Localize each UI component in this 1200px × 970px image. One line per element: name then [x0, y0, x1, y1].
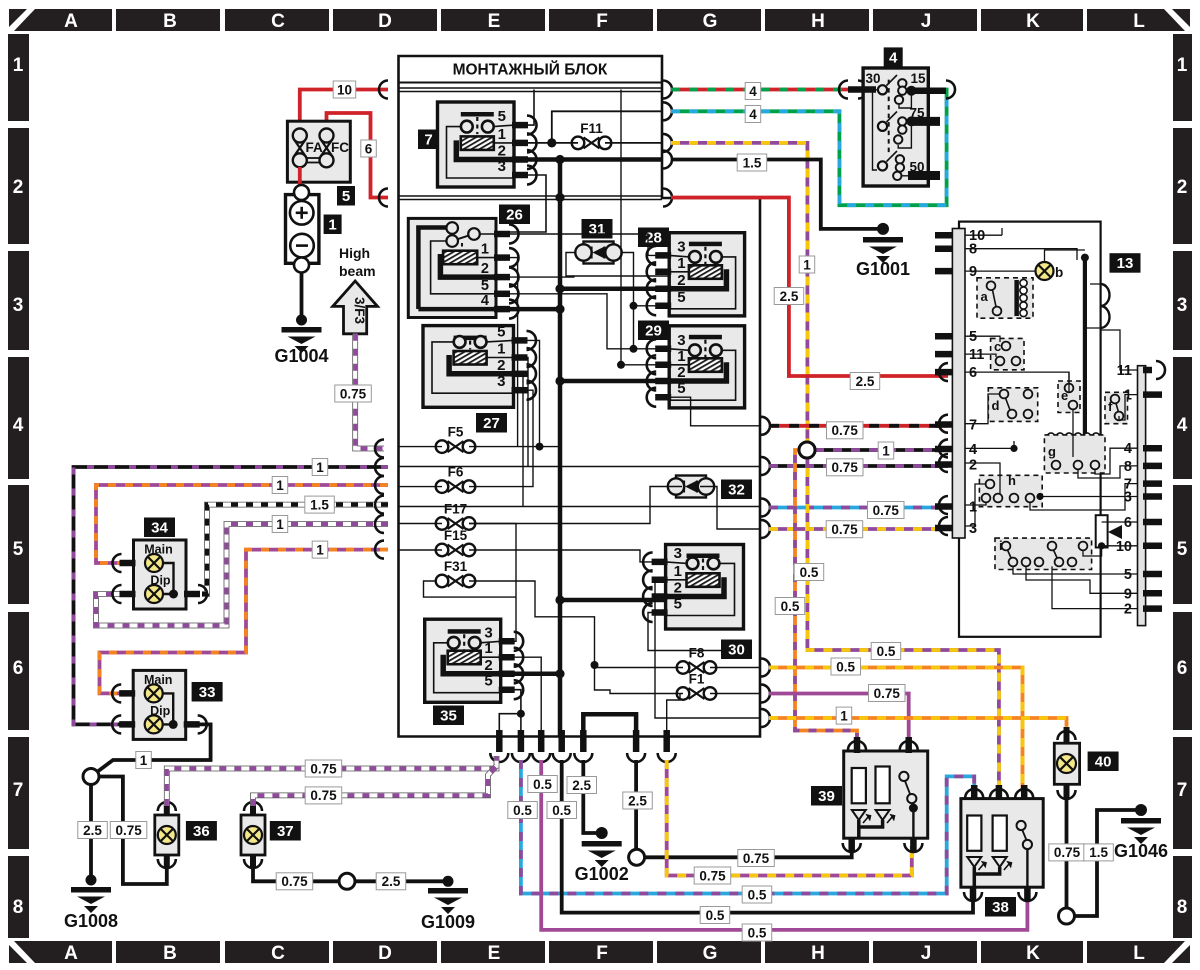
svg-text:4: 4 [481, 293, 489, 309]
wire relay27 pin2 [514, 374, 524, 507]
label 0.5 orange [775, 598, 805, 615]
svg-text:1: 1 [276, 517, 284, 532]
svg-text:FA: FA [306, 140, 324, 155]
svg-text:0.5: 0.5 [877, 644, 896, 659]
svg-text:5: 5 [1124, 567, 1132, 583]
thick vertical power bus x560 [558, 160, 563, 737]
panel 13 switch e [1058, 381, 1080, 413]
lamp 40 [1054, 743, 1079, 784]
wire relay26 pin5 right loop [496, 294, 634, 349]
connector F5 row [375, 440, 384, 458]
wire 2.5 red to panel 13 row6 [671, 198, 948, 377]
relay U30 label 30 [721, 640, 752, 660]
svg-text:A: A [64, 943, 78, 964]
junction G1002 [596, 827, 608, 839]
39 internal wires [859, 820, 883, 827]
svg-text:K: K [1026, 943, 1040, 964]
label 1 wire33dip [312, 541, 328, 558]
connector ignition 30 [839, 81, 848, 99]
39 led arrows [852, 810, 866, 820]
svg-text:K: K [1026, 11, 1040, 32]
label 0.75 row7 [827, 422, 864, 439]
svg-text:F: F [596, 11, 608, 32]
connector ignition 15 right [946, 81, 955, 99]
svg-text:1: 1 [882, 443, 890, 458]
svg-text:2: 2 [677, 272, 685, 289]
svg-text:0.75: 0.75 [699, 868, 726, 883]
svg-text:L: L [1133, 943, 1145, 964]
label 0.5 F8 [831, 658, 861, 675]
lamp 37 label 37 [270, 821, 301, 841]
wire relay26 top pin to right [496, 234, 669, 255]
battery label 1 [324, 215, 342, 235]
wire 1 black to 33 Main [74, 467, 389, 724]
svg-text:2: 2 [677, 364, 685, 381]
38 switch [1017, 821, 1026, 830]
label 0.75 F1 [869, 685, 906, 702]
svg-text:1: 1 [969, 500, 977, 516]
svg-text:F31: F31 [444, 559, 468, 574]
ground G1002 [582, 841, 622, 867]
svg-text:8: 8 [1177, 897, 1188, 918]
wire F31 right [469, 581, 683, 668]
connector into block wire 6 [379, 189, 388, 207]
39 label [811, 786, 842, 806]
fuse F17 [436, 517, 476, 530]
svg-text:36: 36 [193, 823, 210, 840]
wire orange-purple from junction down [795, 450, 857, 744]
label 0.75 row1 [868, 502, 905, 519]
svg-text:2.5: 2.5 [83, 823, 102, 838]
connector purple row143 [663, 134, 672, 152]
svg-text:2: 2 [484, 657, 492, 674]
wire bus to relay28 pin2 thick [560, 287, 669, 292]
lamp 40 label [1088, 752, 1119, 772]
svg-text:2: 2 [1177, 177, 1188, 198]
svg-text:5: 5 [13, 539, 24, 560]
svg-text:E: E [488, 11, 501, 32]
rear lamp cluster 38 [961, 799, 1043, 888]
svg-text:4: 4 [969, 442, 977, 458]
fusible link FC [320, 129, 334, 143]
headlamp 33 label 33 [192, 682, 223, 702]
svg-text:0.75: 0.75 [832, 423, 859, 438]
high beam arrow 3/F3 [333, 281, 378, 334]
wire 1 black-purple to panel row4 [815, 448, 948, 452]
39 lamp resistors [852, 768, 866, 803]
label 0.5 purple B [742, 924, 772, 941]
connector row 524 [375, 515, 384, 533]
svg-text:5: 5 [969, 329, 977, 345]
svg-text:1: 1 [140, 753, 148, 768]
svg-text:10: 10 [337, 82, 352, 97]
svg-text:b: b [1055, 265, 1063, 280]
connector into block wire 10 [379, 81, 388, 99]
svg-text:2: 2 [1124, 602, 1132, 618]
svg-text:G1008: G1008 [64, 911, 118, 931]
wire vertical x621 relay29 pin1 [621, 90, 669, 365]
wire relay35 pin2 to bus thick [501, 672, 560, 677]
svg-text:F: F [596, 943, 608, 964]
svg-text:J: J [921, 11, 932, 32]
wire F5 right [469, 446, 540, 448]
wire 1 white-purple to 34 Dip [96, 524, 388, 626]
relay U27 [423, 326, 514, 408]
svg-text:1: 1 [677, 348, 685, 365]
relay U35 [425, 619, 501, 702]
junction G1001 [877, 223, 889, 235]
svg-text:0.75: 0.75 [743, 851, 770, 866]
relay U28 [669, 233, 744, 316]
label 0.75 39ground [738, 850, 775, 867]
fusible link FA [293, 129, 307, 143]
mounting block МОНТАЖНЫЙ БЛОК outline [399, 56, 761, 737]
svg-text:1: 1 [497, 341, 505, 358]
svg-text:5: 5 [342, 188, 350, 205]
label 6 [361, 140, 377, 157]
svg-text:6: 6 [13, 658, 24, 679]
wire relay27 pin1 [514, 358, 529, 467]
relay U29 label 29 [638, 321, 669, 341]
wire 1.5 white-black to 34 right pin [202, 505, 388, 594]
svg-text:5: 5 [498, 108, 506, 125]
wire battery minus to ground [300, 272, 304, 322]
svg-text:beam: beam [339, 263, 376, 279]
thick U link bottom connectors [583, 714, 636, 736]
svg-text:L: L [1133, 11, 1145, 32]
fuse F11 [572, 137, 612, 150]
wire 2.5 to G1008 [89, 785, 93, 881]
label 0.75 40 [1049, 844, 1086, 861]
svg-text:2: 2 [13, 177, 24, 198]
wire 31 left leg [566, 253, 576, 277]
svg-text:30: 30 [866, 71, 881, 86]
label 0.75 row2 [827, 459, 864, 476]
wire 0.75 white-purple to 37 top [253, 766, 497, 806]
svg-text:G1009: G1009 [421, 912, 475, 932]
label 0.75 G1009 [276, 873, 313, 890]
wire 2.5 black to junction circle 39 [634, 760, 638, 849]
svg-text:h: h [1008, 473, 1016, 488]
panel 13 switch d [988, 388, 1037, 422]
svg-text:33: 33 [199, 684, 216, 701]
wire 31 right leg to relay28 pin5 [622, 253, 670, 306]
panel 13 circles row [1047, 433, 1054, 440]
switch panel 13 outline [959, 222, 1101, 637]
svg-text:D: D [378, 943, 392, 964]
lamp 36 [155, 815, 179, 855]
svg-text:C: C [271, 11, 285, 32]
ground G1004 [282, 327, 322, 353]
svg-text:5: 5 [674, 596, 682, 613]
svg-text:5: 5 [677, 380, 685, 397]
wire green feed from F11 junction [552, 111, 662, 143]
wire relay7 pin3 down [496, 175, 546, 232]
connector red row197 [663, 189, 672, 207]
svg-text:2.5: 2.5 [856, 374, 875, 389]
wire 0.75 to 39 bottom left [645, 846, 852, 857]
label 1.5 top [737, 154, 767, 171]
wire 0.75 lamp40 down [1065, 795, 1069, 908]
ignition pin 30 stub [848, 86, 876, 93]
wire relay7 pin5 to bus [514, 90, 534, 126]
svg-text:2: 2 [498, 143, 506, 160]
svg-text:3: 3 [674, 545, 682, 562]
headlamp 34 label 34 [144, 518, 175, 538]
panel 13 lamp b [1036, 262, 1054, 280]
wire relay7 pin1 to F11 [514, 142, 578, 144]
svg-text:26: 26 [506, 206, 523, 223]
panel 13 switch c [991, 338, 1024, 369]
buzzer 32 label 32 [721, 480, 752, 500]
svg-text:5: 5 [484, 673, 492, 690]
wire 0.75 to lamp36 bottom [98, 777, 167, 885]
svg-text:9: 9 [1124, 586, 1132, 602]
ground G1046 [1121, 818, 1161, 844]
panel 13 coil connector right [1101, 284, 1110, 328]
wire relay7 pin2 thick to edge [514, 157, 662, 162]
wire 0.5 orange-yellow F8 to 38 [769, 668, 1023, 792]
svg-text:H: H [811, 943, 825, 964]
svg-text:3: 3 [498, 158, 506, 175]
wire bus to relay29 pin2 thick [560, 379, 669, 384]
svg-text:4: 4 [13, 415, 24, 436]
headlamp 33 [133, 670, 186, 739]
panel 13 wires to right strip [1101, 330, 1138, 370]
svg-text:0.75: 0.75 [1054, 845, 1081, 860]
panel 13 resistor [1096, 515, 1108, 547]
svg-text:8: 8 [13, 897, 24, 918]
wire 1.5 black to G1001 [671, 160, 879, 229]
wire row 506 across block [399, 506, 761, 508]
label 0.75 row3 [826, 521, 863, 538]
junction thick bus top [555, 155, 564, 164]
label 0.5 purpleyellow horiz [871, 643, 901, 660]
buzzer 31 label 31 [582, 219, 613, 239]
svg-text:38: 38 [992, 899, 1009, 916]
39 switch [899, 772, 908, 781]
ignition pin 50 stub [908, 171, 940, 180]
junction G1046 [1135, 804, 1147, 816]
ignition internal contacts [878, 85, 887, 94]
svg-text:0.5: 0.5 [748, 887, 767, 902]
label 0.75 high beam [335, 385, 372, 402]
wire red FA to battery plus [298, 167, 302, 188]
svg-text:4: 4 [889, 49, 898, 66]
svg-text:6: 6 [1124, 515, 1132, 531]
svg-text:0.75: 0.75 [873, 503, 900, 518]
panel 13 left pins [935, 232, 953, 239]
svg-text:2: 2 [674, 580, 682, 597]
svg-text:0.5: 0.5 [513, 803, 532, 818]
wire 1 purple-orange to 34 Main [96, 485, 388, 563]
panel 13 switch i [995, 538, 1092, 569]
label 1 wire34dip [272, 516, 288, 533]
fuse left stubs [399, 446, 443, 448]
svg-text:1: 1 [677, 255, 685, 272]
label 0.5 cyan B [742, 886, 772, 903]
svg-text:F11: F11 [580, 121, 603, 136]
relay U30 [666, 545, 744, 630]
wire bus to relay30 pin2 thick [560, 598, 666, 603]
svg-text:G1046: G1046 [1114, 841, 1168, 861]
38 lamp resistors [967, 816, 981, 851]
panel 13 switch g [1044, 435, 1105, 473]
svg-text:G: G [703, 943, 718, 964]
svg-text:40: 40 [1095, 754, 1112, 771]
wire relay29 pin5 to block edge row 425.8 [669, 397, 760, 426]
label 0.75 yellow39 [694, 867, 731, 884]
svg-text:2: 2 [497, 357, 505, 374]
fuse F1 [677, 687, 717, 700]
ignition label 4 [884, 47, 903, 67]
label 0.75 36 [110, 822, 147, 839]
wire F8 right to edge [710, 667, 760, 669]
connector row 504 [375, 496, 384, 514]
38 led arrows [967, 857, 981, 867]
label 10 [333, 81, 356, 98]
ignition pin 15 stub [911, 87, 946, 94]
label 0.75 row37 [305, 787, 342, 804]
connector F8 out [761, 659, 770, 677]
wire row 466 across block [399, 466, 761, 468]
svg-text:A: A [64, 11, 78, 32]
wire 0.75 purple-yellow to 39 bottom right [667, 760, 912, 876]
svg-text:G1002: G1002 [575, 864, 629, 884]
svg-text:11: 11 [1117, 363, 1132, 379]
wire 0.75 37 bottom to G1009 [253, 866, 340, 881]
svg-text:9: 9 [969, 264, 977, 280]
svg-text:B: B [163, 943, 177, 964]
svg-text:3: 3 [677, 332, 685, 349]
label 0.5 cyan A [508, 802, 538, 819]
label 1.5 wire34 [305, 496, 335, 513]
label 1 33out [136, 752, 152, 769]
svg-text:0.75: 0.75 [831, 522, 858, 537]
svg-text:1: 1 [498, 126, 506, 143]
label 1 vertical H [799, 256, 815, 273]
svg-text:1: 1 [674, 563, 682, 580]
svg-text:3: 3 [677, 238, 685, 255]
relay U28 label 28 [638, 228, 669, 248]
svg-text:6: 6 [1177, 658, 1188, 679]
svg-text:1.5: 1.5 [743, 155, 762, 170]
junction F11 left [547, 138, 556, 147]
svg-text:0.75: 0.75 [832, 460, 859, 475]
ground G1009 [428, 888, 468, 914]
wire 0.75 purple-yellow to panel row3 [769, 527, 948, 531]
svg-text:13: 13 [1117, 255, 1134, 272]
relay U7 [438, 102, 515, 187]
relay U26 [408, 218, 496, 317]
svg-text:C: C [271, 943, 285, 964]
relay U26 label 26 [499, 205, 530, 225]
svg-text:5: 5 [497, 323, 505, 340]
svg-text:6: 6 [969, 365, 977, 381]
headlamp 34 [134, 540, 187, 609]
panel 13 internal wires [965, 234, 1002, 236]
connector panel row1 [939, 496, 948, 514]
svg-text:МОНТАЖНЫЙ БЛОК: МОНТАЖНЫЙ БЛОК [453, 61, 608, 79]
svg-text:0.75: 0.75 [310, 788, 337, 803]
svg-text:2: 2 [969, 458, 977, 474]
connector 1.5 row159 [663, 151, 672, 169]
wire F11 right to block edge [605, 142, 662, 144]
svg-text:1.5: 1.5 [310, 497, 329, 512]
svg-text:31: 31 [589, 221, 606, 238]
wire 1 from 33 to junction [95, 724, 211, 773]
link bar between FA FC [307, 157, 320, 159]
ignition pin 75 stub [911, 117, 940, 126]
svg-text:2.5: 2.5 [382, 874, 401, 889]
wire internal y197.5 power line [399, 195, 663, 197]
wire 0.75 cyan-purple to panel row1 [769, 506, 948, 510]
wire 2.5 black to G1002 [583, 760, 601, 833]
svg-text:1: 1 [1177, 55, 1188, 76]
panel 13 left connector strip [952, 229, 965, 539]
svg-text:4: 4 [1124, 441, 1132, 457]
wire 10 red battery to block [300, 90, 388, 125]
wire relay26 pin1 loop [496, 258, 518, 447]
wire 0.75 white-purple to 36 top [167, 756, 497, 806]
relay U29 [669, 326, 744, 408]
connector wire4 green row111 [663, 102, 672, 120]
svg-text:5: 5 [1177, 539, 1188, 560]
wire 0.5 purple from connector to 38 bottom right [541, 760, 1027, 930]
svg-text:B: B [163, 11, 177, 32]
svg-text:3: 3 [13, 295, 24, 316]
svg-text:3/F3: 3/F3 [352, 297, 367, 325]
svg-text:G: G [703, 11, 718, 32]
svg-text:2.5: 2.5 [628, 793, 647, 808]
ground G1001 [863, 237, 903, 263]
svg-text:F17: F17 [444, 502, 467, 517]
wire 0.75 black-purple to panel row2 [769, 464, 948, 468]
junction circle left [83, 769, 99, 785]
wire F31 left link [424, 581, 517, 597]
svg-text:6: 6 [365, 141, 373, 156]
svg-text:1.5: 1.5 [1089, 845, 1108, 860]
svg-text:32: 32 [728, 481, 745, 498]
wire purple-yellow from F11 to column H [671, 143, 807, 450]
wire 0.5 cyan-purple from connector to 38 [521, 760, 974, 894]
svg-text:0.75: 0.75 [115, 823, 142, 838]
junction circle 40 [1059, 908, 1075, 924]
svg-text:7: 7 [969, 418, 977, 434]
buzzer 32 symbol [676, 476, 706, 498]
ground G1008 [71, 887, 111, 913]
svg-text:0.5: 0.5 [533, 777, 552, 792]
39 pins [854, 737, 861, 753]
svg-text:F1: F1 [689, 672, 705, 687]
wire 0.75 red-black to panel row7 [769, 424, 948, 428]
svg-text:2: 2 [481, 261, 489, 277]
wire F1 right to edge [710, 693, 760, 695]
connector row 467 [375, 458, 384, 476]
svg-text:0.75: 0.75 [310, 761, 337, 776]
label 1 wire33main [312, 459, 328, 476]
label 1 row4 [878, 442, 894, 459]
38 internal wires [974, 867, 999, 874]
wire 6 red fusible link FC to block [327, 113, 389, 198]
label 0.5 purple A [528, 776, 558, 793]
38 label [985, 897, 1016, 917]
panel 13 row11 connector [1143, 367, 1152, 374]
junction G1004 [296, 315, 307, 326]
connector panel row3 [939, 517, 948, 535]
panel 13 switch f [1105, 392, 1128, 423]
fuse F31 [436, 575, 476, 588]
